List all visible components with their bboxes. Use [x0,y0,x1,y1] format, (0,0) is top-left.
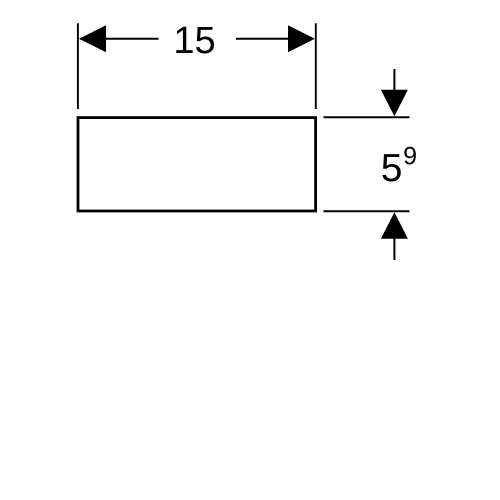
svg-text:15: 15 [173,20,215,62]
extension line bottom (right dimension) [324,210,410,212]
right dimension: lower leader line [393,238,395,260]
dimension line left segment [80,38,159,40]
dimension line right segment [236,38,293,40]
rectangle body (15 x 5.9 part outline) [78,118,316,211]
arrowhead down [381,90,408,117]
arrowhead left [79,25,106,52]
extension line top (right dimension) [324,116,410,118]
extension line left (top dimension) [77,23,79,109]
arrowhead right [288,25,315,52]
right dimension: upper leader line [393,69,395,95]
extension line right (top dimension) [315,23,317,109]
arrowhead up [381,212,408,239]
